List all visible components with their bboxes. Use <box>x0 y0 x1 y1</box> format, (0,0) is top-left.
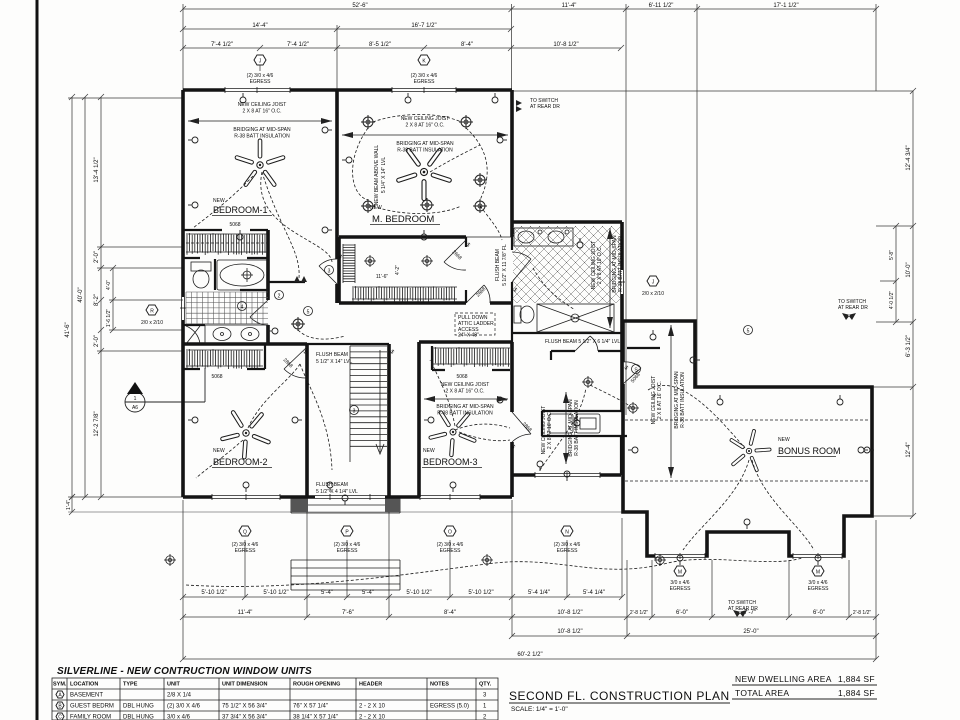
label m-bedroom <box>370 205 440 225</box>
wall exterior top <box>183 88 512 92</box>
switch arc bonus <box>648 385 745 448</box>
svg-text:FLUSH BEAM: FLUSH BEAM <box>495 249 501 281</box>
circled ref 4 <box>304 307 313 316</box>
svg-text:NEW DWELLING AREA: NEW DWELLING AREA <box>735 674 832 684</box>
label bedroom-2 <box>211 374 272 468</box>
outlet (866,450) <box>858 447 868 453</box>
beam note bath bottom <box>545 339 620 345</box>
ceiling fan bedroom-2 <box>212 397 282 466</box>
svg-text:AT REAR DR: AT REAR DR <box>530 104 560 110</box>
hall bath sink <box>514 228 573 246</box>
wall hall/bonus left lower <box>620 436 622 475</box>
wall divider bedroom1/m-bedroom with beam above <box>335 90 339 303</box>
svg-text:5'-10 1/2": 5'-10 1/2" <box>468 590 493 596</box>
wall bedroom-2 closet bottom <box>183 345 265 369</box>
wall bonus closet stub <box>627 347 660 349</box>
outlet (505,400) <box>497 397 507 403</box>
svg-text:A6: A6 <box>132 405 138 411</box>
label bedroom-1 <box>212 198 272 228</box>
svg-text:2'-8 1/2": 2'-8 1/2" <box>630 610 649 616</box>
outlet (243,95) <box>240 93 246 103</box>
wiring dash bonus west bay <box>683 460 749 550</box>
outlet (190,140) <box>188 137 198 143</box>
hall bath shower <box>537 304 614 332</box>
svg-text:NEW: NEW <box>213 198 225 204</box>
svg-text:8'-4": 8'-4" <box>444 610 456 616</box>
outlet (567,479) <box>564 471 570 481</box>
svg-text:11'-4": 11'-4" <box>238 610 253 616</box>
wall laundry box <box>542 411 627 436</box>
beam note bath vertical <box>495 244 508 286</box>
wiring dash bonus east bay <box>752 460 814 550</box>
outlet (720,397) <box>717 395 723 405</box>
svg-text:Q: Q <box>243 530 247 536</box>
hall bath toilet <box>514 306 534 323</box>
svg-text:1,884 SF: 1,884 SF <box>838 674 875 684</box>
door bedroom-3 <box>512 412 531 442</box>
dim row2 <box>183 28 511 30</box>
dim vertical 896 <box>895 226 897 322</box>
circled ref 3 <box>350 406 359 415</box>
window schedule header row <box>53 682 492 688</box>
wall m-bedroom bottom <box>339 235 466 239</box>
svg-text:10'-8 1/2": 10'-8 1/2" <box>557 629 582 635</box>
outlet (747,527) <box>744 519 750 529</box>
window tag hexagon P <box>334 526 361 554</box>
svg-text:M: M <box>816 570 820 576</box>
svg-text:2 - 2 X 10: 2 - 2 X 10 <box>359 704 386 710</box>
window top bedroom-1 <box>225 87 290 93</box>
switch arc hall interior <box>540 385 631 470</box>
svg-text:11'-4": 11'-4" <box>562 3 577 9</box>
svg-text:13'-4 1/2": 13'-4 1/2" <box>94 157 100 182</box>
svg-text:6'-11 1/2": 6'-11 1/2" <box>649 3 674 9</box>
svg-text:BONUS ROOM: BONUS ROOM <box>778 446 841 456</box>
svg-text:FAMILY ROOM: FAMILY ROOM <box>70 715 111 720</box>
svg-text:2'-0": 2'-0" <box>94 251 100 263</box>
switch arc bedroom-2 <box>248 364 332 470</box>
mbath shower diag <box>512 252 531 282</box>
svg-text:BEDROOM-3: BEDROOM-3 <box>423 457 478 467</box>
wall bath bottom beam <box>512 332 622 334</box>
svg-text:R-38 BATT INSULATION: R-38 BATT INSULATION <box>574 400 580 456</box>
to-switch note top <box>516 98 560 112</box>
outlet (453,490) <box>450 482 456 492</box>
svg-text:FLUSH BEAM 5 1/2" X 6 1/4" LV: FLUSH BEAM 5 1/2" X 6 1/4" LVL <box>545 339 620 345</box>
bonus ceiling dashed lines <box>625 420 870 481</box>
svg-text:EGRESS: EGRESS <box>235 548 257 554</box>
vanity sinks main bath <box>205 325 268 343</box>
outlet (190,205) <box>188 202 198 208</box>
svg-text:NEW CEILING JOIST: NEW CEILING JOIST <box>238 102 287 108</box>
svg-text:TYPE: TYPE <box>123 682 138 688</box>
dim rowD overall <box>183 658 876 660</box>
wall stairwell right <box>387 344 391 497</box>
switch arc bedroom-1 <box>261 172 332 262</box>
svg-text:ROUGH OPENING: ROUGH OPENING <box>293 682 340 688</box>
svg-text:75 1/2" X 56 3/4": 75 1/2" X 56 3/4" <box>222 704 267 710</box>
dim 41'-6" vertical <box>71 97 73 512</box>
beam note stair bottom <box>316 482 358 495</box>
closet rail wic bottom <box>352 286 457 302</box>
svg-text:R-38 BATT INSULATION: R-38 BATT INSULATION <box>618 236 624 292</box>
svg-text:5068: 5068 <box>229 222 240 228</box>
door bath pocket <box>250 300 268 325</box>
svg-text:12'-2 7/8": 12'-2 7/8" <box>94 411 100 436</box>
svg-text:5'-10 1/2": 5'-10 1/2" <box>406 590 431 596</box>
wall wic right stub <box>465 237 467 303</box>
svg-text:3: 3 <box>328 269 331 275</box>
wall stairwell left <box>305 344 309 497</box>
window schedule row A <box>56 691 487 699</box>
svg-text:R-38 BATT INSULATION: R-38 BATT INSULATION <box>397 148 453 154</box>
window tag hexagon J2 <box>642 276 664 297</box>
outlet (246,490) <box>243 482 249 492</box>
svg-text:FLUSH BEAM: FLUSH BEAM <box>316 482 348 488</box>
svg-text:FLUSH BEAM: FLUSH BEAM <box>316 352 348 358</box>
svg-text:2 - 2 X 10: 2 - 2 X 10 <box>359 715 386 720</box>
wall bath tub divider <box>215 259 268 290</box>
circled ref 2 <box>275 291 284 300</box>
stairs arrow <box>376 350 384 454</box>
door laundry <box>575 336 598 351</box>
svg-text:BRIDGING AT MID-SPAN: BRIDGING AT MID-SPAN <box>233 127 291 133</box>
svg-text:52'-6": 52'-6" <box>352 3 367 9</box>
ceiling fan m-bedroom <box>387 133 463 208</box>
joist note laundry vertical <box>541 392 580 464</box>
tub main bath <box>217 260 268 290</box>
outlet (818,563) <box>815 555 821 565</box>
tile grid main bath <box>186 292 268 324</box>
svg-text:EGRESS (5.0): EGRESS (5.0) <box>430 704 469 710</box>
door main bath <box>186 326 200 344</box>
dim extensions bottom <box>183 500 876 659</box>
svg-text:NEW: NEW <box>213 448 225 454</box>
circled ref s <box>632 365 641 374</box>
svg-text:5068: 5068 <box>211 374 222 380</box>
balcony door bottom <box>315 494 385 500</box>
svg-text:38 1/4" X 57 1/4": 38 1/4" X 57 1/4" <box>293 715 338 720</box>
wall bath corridor right <box>511 237 513 342</box>
joist note bonus vertical <box>651 325 686 478</box>
svg-text:5 1/2" X 4 1/4" LVL: 5 1/2" X 4 1/4" LVL <box>316 489 358 495</box>
outlet (408,95) <box>405 93 411 103</box>
svg-text:EGRESS: EGRESS <box>440 548 462 554</box>
svg-text:EGRESS: EGRESS <box>670 586 692 592</box>
switch arc bedroom-3 <box>430 360 510 430</box>
outlet (653,332) <box>650 330 656 340</box>
outlet (872,450) <box>864 447 874 453</box>
svg-text:6'-0": 6'-0" <box>676 610 688 616</box>
svg-text:5'-4 1/4": 5'-4 1/4" <box>583 590 605 596</box>
svg-text:5'-10 1/2": 5'-10 1/2" <box>201 590 226 596</box>
svg-text:10'-0": 10'-0" <box>906 262 912 277</box>
svg-text:EGRESS: EGRESS <box>414 79 436 85</box>
beam note divider wall <box>374 145 387 206</box>
svg-text:40'-0": 40'-0" <box>78 287 84 302</box>
window schedule grid <box>52 678 498 720</box>
can light (427,205) <box>420 198 434 212</box>
svg-text:BEDROOM-1: BEDROOM-1 <box>213 205 268 215</box>
door bedroom-2 <box>284 347 307 378</box>
svg-text:10'-8 1/2": 10'-8 1/2" <box>557 610 582 616</box>
svg-text:1: 1 <box>134 396 137 402</box>
svg-text:NOTES: NOTES <box>430 682 449 688</box>
svg-text:37 3/4" X 56 3/4": 37 3/4" X 56 3/4" <box>222 715 267 720</box>
beam note stair top <box>316 352 352 365</box>
svg-text:25'-0": 25'-0" <box>743 629 758 635</box>
svg-text:BRIDGING AT MID-SPAN: BRIDGING AT MID-SPAN <box>436 404 494 410</box>
stairs treads <box>350 346 387 446</box>
section marker 1/A6 <box>125 368 205 412</box>
window tag hexagon Q <box>232 526 259 554</box>
svg-text:AT REAR DR: AT REAR DR <box>838 305 868 311</box>
svg-text:GUEST BEDRM: GUEST BEDRM <box>70 704 114 710</box>
outlet (580,240) <box>577 238 583 248</box>
svg-text:5'-4 1/4": 5'-4 1/4" <box>528 590 550 596</box>
border frame left <box>36 0 39 720</box>
svg-text:7'-4 1/2": 7'-4 1/2" <box>287 42 309 48</box>
svg-text:SECOND FL. CONSTRUCTION PLAN: SECOND FL. CONSTRUCTION PLAN <box>509 689 730 703</box>
outlet (300,420) <box>292 417 302 423</box>
can light (660,560) <box>654 554 666 566</box>
can light (170,560) <box>164 554 176 566</box>
deck steps <box>291 560 400 590</box>
svg-text:DBL HUNG: DBL HUNG <box>123 715 154 720</box>
wiring dash m-bedroom <box>430 145 480 172</box>
wall exterior bottom <box>183 495 512 499</box>
svg-text:R-38 BATT INSULATION: R-38 BATT INSULATION <box>680 372 686 428</box>
svg-text:O: O <box>448 530 452 536</box>
stairs stringer <box>349 346 351 462</box>
svg-text:3: 3 <box>353 409 356 415</box>
svg-text:5 1/2" X 14" LVL: 5 1/2" X 14" LVL <box>316 359 352 365</box>
can light (633,408) <box>627 402 639 414</box>
outlet (630,450) <box>628 447 638 453</box>
outlet (330,490) <box>327 482 333 492</box>
wall bath right <box>266 230 270 344</box>
door wic entry <box>444 240 466 270</box>
svg-text:8'-5 1/2": 8'-5 1/2" <box>369 42 391 48</box>
svg-text:R-38 BATT INSULATION: R-38 BATT INSULATION <box>234 134 290 140</box>
svg-text:2: 2 <box>278 294 281 300</box>
outlet (577,418) <box>574 416 580 426</box>
window schedule row C <box>56 713 487 720</box>
label bonus room <box>777 437 841 457</box>
dim row3 <box>183 47 621 49</box>
svg-text:UNIT DIMENSION: UNIT DIMENSION <box>222 682 268 688</box>
wall closet bedroom-1 bottom <box>183 257 268 259</box>
dim ticks right <box>872 88 916 519</box>
door bedroom-1 <box>319 259 337 284</box>
svg-text:SYM.: SYM. <box>53 682 67 688</box>
svg-text:NEW: NEW <box>423 448 435 454</box>
svg-text:TOTAL AREA: TOTAL AREA <box>735 688 789 698</box>
svg-text:10'-8 1/2": 10'-8 1/2" <box>553 42 578 48</box>
svg-text:2 X 8 AT 16' O.C.: 2 X 8 AT 16' O.C. <box>657 381 663 419</box>
wall vanity <box>183 324 205 326</box>
svg-text:4'-0": 4'-0" <box>106 280 112 290</box>
switch glyphs <box>302 242 657 451</box>
svg-text:2 X 8 AT 16" O.C.: 2 X 8 AT 16" O.C. <box>242 109 281 115</box>
wall bedroom-3 closet bottom <box>432 346 510 370</box>
circled ref 5 <box>744 326 753 335</box>
bonus room outline <box>623 321 872 556</box>
wall bedroom-3 right <box>510 342 514 497</box>
svg-text:M: M <box>678 570 682 576</box>
window schedule row B <box>56 702 487 710</box>
outlet (330,130) <box>322 127 332 133</box>
svg-text:5'-8": 5'-8" <box>889 250 895 260</box>
svg-text:60'-2 1/2": 60'-2 1/2" <box>517 652 542 658</box>
ceiling fan bonus room <box>724 424 776 474</box>
roof line right <box>512 90 913 92</box>
svg-text:8'-4": 8'-4" <box>461 42 473 48</box>
wiring dash bedroom-2 <box>196 440 243 478</box>
svg-text:SILVERLINE - NEW CONTRUCTION W: SILVERLINE - NEW CONTRUCTION WINDOW UNIT… <box>57 666 312 677</box>
svg-text:5'-4": 5'-4" <box>321 590 333 596</box>
svg-text:2/0 x 2/10: 2/0 x 2/10 <box>642 291 664 297</box>
svg-text:1'-6 1/2": 1'-6 1/2" <box>106 309 112 328</box>
svg-text:EGRESS: EGRESS <box>808 586 830 592</box>
svg-text:SCALE: 1/4" = 1'-0": SCALE: 1/4" = 1'-0" <box>511 706 568 713</box>
wall bath top <box>512 220 622 224</box>
outlet (698,360) <box>690 357 700 363</box>
window bottom bedroom-2 <box>212 494 280 500</box>
svg-text:12'-4 3/4": 12'-4 3/4" <box>906 145 912 170</box>
svg-text:NEW CEILING JOIST: NEW CEILING JOIST <box>441 382 490 388</box>
wall laundry top <box>551 351 622 360</box>
svg-text:4'-2": 4'-2" <box>395 265 401 275</box>
dim rowA small spans <box>183 596 622 598</box>
svg-text:11'-6": 11'-6" <box>376 274 389 280</box>
window tag hexagon N <box>554 526 581 554</box>
window left bath <box>180 297 186 320</box>
svg-text:2'-0": 2'-0" <box>94 335 100 347</box>
balcony slab <box>291 497 400 513</box>
joist note m-bedroom <box>342 116 508 154</box>
door bonus room <box>623 362 641 384</box>
svg-text:7'-6": 7'-6" <box>342 610 354 616</box>
svg-text:2 X 8 AT 16" O.C.: 2 X 8 AT 16" O.C. <box>445 389 484 395</box>
switch arc m-bedroom loop <box>353 115 502 241</box>
dim column inner <box>100 97 102 497</box>
outlet (190,420) <box>188 417 198 423</box>
outlet (240,232) <box>237 230 243 240</box>
wall hall right / laundry <box>620 333 624 411</box>
joist note bedroom-1 <box>188 102 332 140</box>
outlet (680,563) <box>677 555 683 565</box>
svg-text:1,884 SF: 1,884 SF <box>838 688 875 698</box>
wiring dash bedroom-1 west <box>193 176 253 228</box>
dim rowB <box>183 616 876 618</box>
svg-text:BASEMENT: BASEMENT <box>70 693 103 699</box>
wall bedroom-3 top <box>419 340 512 344</box>
svg-text:2/8 X 1/4: 2/8 X 1/4 <box>167 693 192 699</box>
svg-text:6'-0": 6'-0" <box>813 610 825 616</box>
wall wic left <box>337 237 341 303</box>
svg-text:NEW: NEW <box>778 437 790 443</box>
wall wic bottom <box>339 301 512 305</box>
circled ref 1 <box>325 266 334 275</box>
svg-text:5'-10 1/2": 5'-10 1/2" <box>263 590 288 596</box>
window tag hexagon J <box>247 55 274 85</box>
wall bath right <box>620 222 624 333</box>
to-switch note right <box>838 299 868 320</box>
svg-text:BRIDGING AT MID-SPAN: BRIDGING AT MID-SPAN <box>396 141 454 147</box>
wall hall bottom <box>512 473 621 477</box>
svg-text:HEADER: HEADER <box>359 682 382 688</box>
dim row1 overall <box>183 8 876 10</box>
window top m-bedroom <box>392 87 456 93</box>
wall bedroom-3 left <box>417 342 421 497</box>
svg-text:(2) 3/0 X 4/6: (2) 3/0 X 4/6 <box>167 704 201 710</box>
can light (368,206) <box>361 199 375 213</box>
wall closet bedroom-1 top <box>183 229 268 231</box>
svg-text:C: C <box>58 715 62 720</box>
svg-text:M. BEDROOM: M. BEDROOM <box>372 214 434 225</box>
can light (487,560) <box>481 554 493 566</box>
joist note bath vertical <box>591 228 624 328</box>
svg-text:4: 4 <box>241 305 244 311</box>
door wic bottom <box>466 285 490 303</box>
svg-text:NEW CEILING JOIST: NEW CEILING JOIST <box>401 116 450 122</box>
bonus windows bottom <box>655 553 705 559</box>
joist note bedroom-3 <box>424 382 508 417</box>
svg-text:16'-7 1/2": 16'-7 1/2" <box>411 23 436 29</box>
ceiling fan bedroom-1 <box>235 139 286 187</box>
outlet (495,95) <box>492 93 498 103</box>
svg-text:QTY.: QTY. <box>479 682 492 688</box>
can light (370,261) <box>364 255 376 267</box>
wall bath/bed2 separation <box>183 342 307 346</box>
svg-text:NEW BEAM ABOVE WALL: NEW BEAM ABOVE WALL <box>374 145 380 206</box>
laundry washer dryer <box>549 414 600 433</box>
window tag hexagon M left <box>670 566 692 592</box>
label bedroom-3 <box>422 374 482 468</box>
svg-text:41'-6": 41'-6" <box>65 322 71 337</box>
svg-text:5068: 5068 <box>456 374 467 380</box>
outlet (270,331) <box>268 328 278 334</box>
dim 40'-0" vertical <box>84 97 86 497</box>
window tag hexagon O <box>437 526 464 554</box>
svg-text:12'-4": 12'-4" <box>906 442 912 457</box>
to-switch note bonus <box>728 600 758 617</box>
outlet (345,503) <box>342 495 348 505</box>
svg-text:BEDROOM-2: BEDROOM-2 <box>213 457 268 467</box>
svg-text:17'-1 1/2": 17'-1 1/2" <box>773 3 798 9</box>
svg-text:7'-4 1/2": 7'-4 1/2" <box>211 42 233 48</box>
beam stairwell top <box>307 343 389 345</box>
window tag hexagon R <box>141 305 163 326</box>
svg-text:2 X 8 AT 16' O.C.: 2 X 8 AT 16' O.C. <box>547 411 553 449</box>
dim rowC <box>512 635 876 637</box>
svg-text:EGRESS: EGRESS <box>557 548 579 554</box>
svg-text:DBL HUNG: DBL HUNG <box>123 704 154 710</box>
svg-text:N: N <box>565 530 569 536</box>
wall exterior left <box>181 90 185 497</box>
svg-text:1'-4": 1'-4" <box>66 500 72 510</box>
svg-text:EGRESS: EGRESS <box>250 79 272 85</box>
outlet (344,160) <box>342 157 352 163</box>
can light (588,382) <box>582 376 594 388</box>
outlet (330,230) <box>322 227 332 233</box>
closet rail bedroom-3 <box>432 347 510 367</box>
svg-text:2'-8 1/2": 2'-8 1/2" <box>853 610 872 616</box>
outlet (540,469) <box>537 461 543 471</box>
svg-text:R-38 BATT INSULATION: R-38 BATT INSULATION <box>437 411 493 417</box>
ceiling fan bedroom-3 <box>421 398 487 464</box>
